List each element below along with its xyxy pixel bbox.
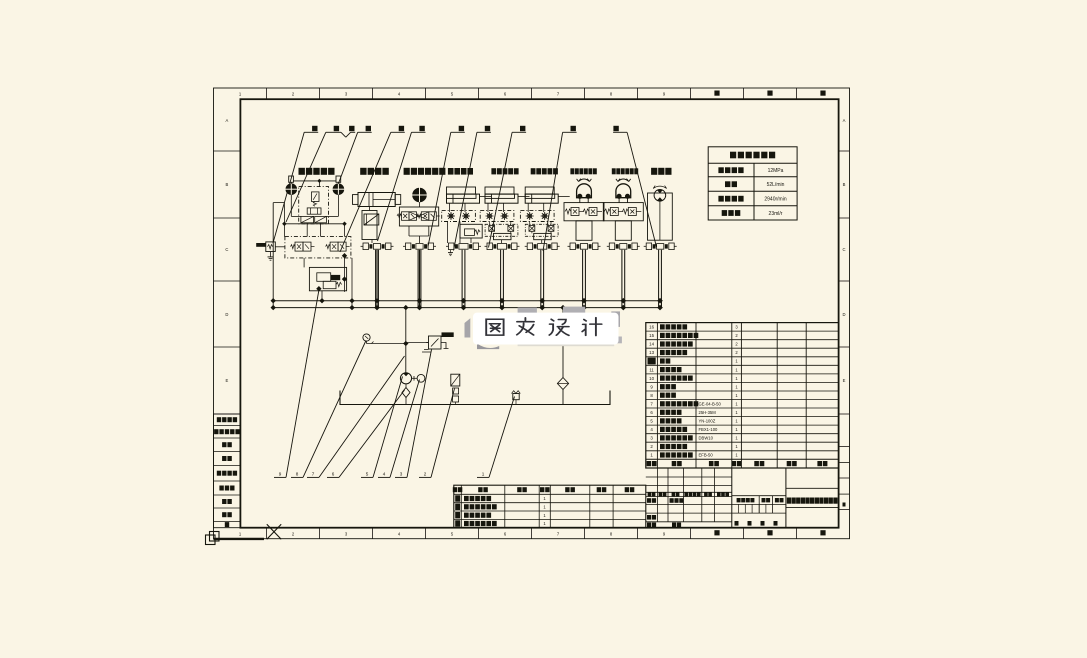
pipe — [582, 250, 584, 308]
pressure gauge switch — [256, 243, 266, 247]
group label: turret cylinder 1 — [491, 168, 496, 174]
svg-text:C: C — [842, 247, 845, 252]
balloon label 1 — [312, 126, 317, 131]
balloon label 5 — [399, 126, 404, 131]
group label: slide cylinder — [360, 168, 366, 175]
right margin mark — [843, 503, 846, 507]
level gauge LG1 — [451, 374, 460, 386]
assembly bottom rail — [284, 223, 344, 225]
cylinder — [447, 194, 480, 203]
solenoid valve YV2 — [330, 242, 338, 251]
air breather — [513, 394, 519, 400]
manifold 2 — [363, 243, 368, 250]
motor-pump set — [400, 373, 411, 384]
valve box — [564, 203, 604, 221]
pump top wire — [293, 180, 336, 182]
svg-text:16: 16 — [649, 325, 654, 330]
motor M9 box — [648, 193, 673, 240]
part leader 4 — [378, 476, 390, 478]
group label: pump unit — [299, 168, 305, 175]
cylinder — [485, 194, 518, 203]
pump station valve box — [299, 187, 329, 224]
group label: 180 flip cylinder 1 — [570, 168, 574, 174]
part leader 8 — [291, 476, 303, 478]
manifold 3 — [406, 243, 411, 250]
pipe — [621, 250, 623, 308]
solenoid valve YV1 — [295, 242, 303, 251]
valve box — [603, 203, 643, 221]
design parameter table — [708, 147, 797, 220]
group label: turret cylinder 2 — [531, 168, 536, 174]
block outlet wires — [321, 291, 323, 301]
legs — [576, 221, 592, 241]
lower valve pair — [529, 226, 535, 232]
legs — [615, 221, 631, 241]
part leader 7 — [307, 476, 319, 478]
balloon label 8 — [485, 126, 490, 131]
svg-text:1: 1 — [482, 472, 485, 477]
svg-text:B: B — [226, 182, 229, 187]
group label: power head motor — [404, 168, 410, 175]
cylinder block B1 — [309, 267, 346, 290]
svg-text:D: D — [225, 312, 228, 317]
svg-text:4: 4 — [383, 472, 386, 477]
watermark backdrop shapes — [465, 307, 622, 350]
balloon label 7 — [459, 126, 464, 131]
svg-text:A: A — [226, 118, 229, 123]
wire — [419, 202, 421, 207]
filter F1 — [301, 216, 314, 222]
pump P2 — [333, 184, 344, 195]
manifold — [527, 243, 532, 250]
corner trim mark — [210, 532, 220, 542]
pipe 9 — [658, 250, 660, 308]
drain symbol — [450, 250, 452, 253]
side valve box — [460, 224, 482, 238]
leg wires — [447, 222, 449, 244]
svg-text:C: C — [225, 247, 228, 252]
check valve block — [442, 211, 476, 222]
balloon label 6 — [419, 126, 424, 131]
pipe — [500, 250, 502, 308]
pump outlet wires — [290, 195, 292, 217]
svg-text:EFB-50: EFB-50 — [699, 453, 714, 458]
return bus line T — [272, 307, 662, 309]
part leader 2 — [419, 476, 431, 478]
manifold 9 — [646, 243, 651, 250]
centering X mark — [267, 524, 281, 539]
hydraulic motor M9 — [654, 190, 666, 202]
svg-text:2940r/min: 2940r/min — [764, 197, 786, 203]
rotary actuator — [616, 184, 631, 198]
rotary actuator — [577, 184, 592, 198]
pump P1 — [286, 184, 297, 195]
manifold — [609, 243, 614, 250]
svg-text:12MPa: 12MPa — [768, 168, 784, 174]
wire — [369, 207, 371, 211]
svg-text:A: A — [843, 118, 846, 123]
pressure bus line P — [272, 300, 662, 302]
group label: positioning cylinder — [448, 168, 454, 175]
manifold — [487, 243, 492, 250]
binding-edge table — [214, 414, 241, 528]
lower parts table — [454, 485, 646, 528]
balloon label 9 — [520, 126, 525, 131]
check valve CV1 — [402, 388, 410, 398]
svg-text:6: 6 — [332, 472, 335, 477]
filter F2 — [315, 216, 327, 222]
balloon label 4 — [366, 126, 371, 131]
drain symbol — [270, 252, 272, 257]
svg-text:15: 15 — [649, 333, 654, 338]
check valve block — [520, 211, 554, 222]
group label: 180 flip cylinder 2 — [612, 168, 616, 174]
svg-text:7: 7 — [312, 472, 315, 477]
svg-text:D: D — [842, 312, 845, 317]
pressure gauge G1 — [363, 334, 370, 341]
svg-text:11: 11 — [649, 367, 654, 372]
svg-text:FBX1-100: FBX1-100 — [699, 427, 719, 432]
balloon label 11 — [613, 126, 618, 131]
pump suction line — [405, 308, 407, 373]
manifold — [570, 243, 575, 250]
pipe — [461, 250, 463, 308]
svg-text:13: 13 — [649, 350, 654, 355]
valve V2 — [362, 211, 377, 240]
svg-text:23ml/r: 23ml/r — [769, 211, 783, 217]
title block — [646, 476, 732, 478]
pilot valve — [307, 208, 321, 214]
svg-text:52L/min: 52L/min — [767, 182, 785, 188]
svg-text:E: E — [843, 378, 846, 383]
part leader 5 — [361, 476, 373, 478]
svg-text:2: 2 — [424, 472, 427, 477]
bottom thick trim line — [214, 538, 265, 540]
manifold outlet wires — [303, 258, 305, 268]
svg-text:3: 3 — [400, 472, 403, 477]
relief valve tag — [442, 332, 454, 337]
electric motor — [417, 374, 425, 382]
hydraulic motor M3 — [413, 188, 427, 202]
svg-text:E: E — [226, 378, 229, 383]
svg-text:9: 9 — [279, 472, 282, 477]
lower block — [534, 233, 552, 239]
svg-text:25H-35M: 25H-35M — [699, 410, 717, 415]
svg-text:14: 14 — [649, 342, 654, 347]
svg-text:YN-100Z: YN-100Z — [699, 419, 716, 424]
lower block — [494, 233, 512, 239]
balloon 2-3 joined V notch — [341, 132, 346, 137]
balloon label 3 — [349, 126, 354, 131]
lower valve pair — [489, 226, 495, 232]
watermark text tu wen she ji — [486, 318, 602, 336]
watermark box — [473, 313, 619, 345]
cylinder CY2 — [358, 193, 395, 207]
valve block V3 — [399, 207, 438, 226]
pipe — [540, 250, 542, 308]
svg-text:DBW10: DBW10 — [699, 436, 714, 441]
relief valve RV2 — [429, 336, 442, 349]
manifold — [449, 243, 454, 250]
bill of materials table — [646, 323, 839, 468]
svg-text:B: B — [843, 182, 846, 187]
group label: conveyor motor — [651, 168, 657, 175]
pipe 3 — [417, 250, 419, 308]
pipe 2 — [375, 250, 377, 308]
cylinder — [525, 194, 558, 203]
part leader 9 — [274, 476, 286, 478]
return filter — [562, 308, 564, 378]
part leader 1 — [477, 476, 489, 478]
svg-text:GE-04-B-50: GE-04-B-50 — [699, 401, 722, 406]
part leader 6 — [327, 476, 339, 478]
suction wire left — [272, 203, 274, 308]
oil tank — [340, 391, 610, 405]
bus right end wire — [661, 301, 663, 308]
check valve block — [480, 211, 514, 222]
part leader 3 — [395, 476, 407, 478]
balloon label 10 — [571, 126, 576, 131]
balloon label 2 — [334, 126, 339, 131]
manifold block M1 — [285, 237, 351, 258]
svg-text:10: 10 — [649, 376, 654, 381]
drawing title text — [787, 498, 791, 504]
svg-text:5: 5 — [366, 472, 369, 477]
relief valve RV1 — [312, 192, 320, 202]
svg-text:8: 8 — [296, 472, 299, 477]
